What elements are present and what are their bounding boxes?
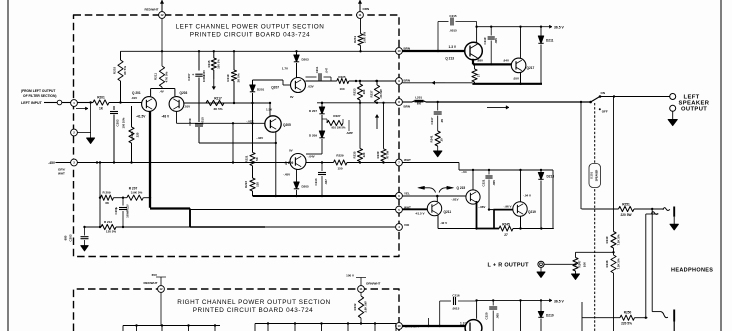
svg-text:C205: C205 bbox=[114, 207, 118, 214]
svg-text:R239: R239 bbox=[376, 151, 380, 158]
svg-text:.047: .047 bbox=[324, 179, 328, 185]
svg-text:LEFT INPUT: LEFT INPUT bbox=[21, 101, 43, 105]
svg-text:100 5%: 100 5% bbox=[217, 59, 221, 69]
svg-text:-.04 V: -.04 V bbox=[523, 194, 531, 198]
svg-text:-.04: -.04 bbox=[461, 170, 467, 174]
svg-text:.47 5W: .47 5W bbox=[385, 150, 389, 159]
svg-text:R201: R201 bbox=[97, 96, 105, 100]
svg-text:PRINTED CIRCUIT BOARD 043-7: PRINTED CIRCUIT BOARD 043-724 bbox=[193, 307, 314, 314]
svg-text:.005: .005 bbox=[494, 38, 498, 44]
svg-text:R227: R227 bbox=[333, 114, 341, 118]
svg-text:R225: R225 bbox=[338, 75, 346, 79]
svg-text:910 1W 5%: 910 1W 5% bbox=[332, 126, 347, 130]
svg-text:R247: R247 bbox=[578, 260, 582, 267]
svg-text:OFF: OFF bbox=[602, 110, 608, 114]
svg-text:10K: 10K bbox=[583, 261, 587, 267]
svg-text:R211: R211 bbox=[154, 73, 158, 80]
svg-text:R245: R245 bbox=[502, 222, 510, 226]
svg-text:R232: R232 bbox=[353, 303, 357, 310]
svg-text:3K 5%: 3K 5% bbox=[237, 73, 241, 82]
svg-text:27: 27 bbox=[477, 74, 481, 78]
svg-text:SPEAKER: SPEAKER bbox=[596, 169, 599, 181]
svg-text:R 209: R 209 bbox=[102, 191, 110, 195]
svg-text:-.04V: -.04V bbox=[308, 155, 315, 159]
svg-text:HEADPHONES: HEADPHONES bbox=[671, 267, 713, 273]
svg-text:C203: C203 bbox=[116, 119, 120, 126]
svg-text:R237: R237 bbox=[369, 90, 373, 97]
svg-text:D211: D211 bbox=[546, 39, 554, 43]
svg-text:-42 V: -42 V bbox=[440, 221, 447, 225]
svg-text:LEFT CHANNEL POWER OUTPUT: LEFT CHANNEL POWER OUTPUT SECTION bbox=[176, 24, 325, 31]
svg-text:220: 220 bbox=[136, 132, 140, 137]
svg-text:.01V: .01V bbox=[131, 96, 137, 100]
svg-text:.68V: .68V bbox=[477, 59, 483, 63]
svg-text:ORN: ORN bbox=[363, 7, 370, 11]
svg-text:C213: C213 bbox=[314, 178, 318, 185]
svg-text:.03V: .03V bbox=[308, 85, 314, 89]
svg-text:.05: .05 bbox=[440, 119, 444, 123]
svg-text:C209: C209 bbox=[188, 118, 192, 126]
svg-text:D 207: D 207 bbox=[309, 109, 317, 113]
svg-text:R251: R251 bbox=[622, 202, 630, 206]
svg-text:WHT: WHT bbox=[58, 172, 65, 176]
svg-text:-.45V: -.45V bbox=[283, 173, 290, 177]
svg-text:C216: C216 bbox=[452, 293, 460, 297]
svg-text:3K 5%: 3K 5% bbox=[123, 66, 127, 75]
svg-text:220 5W: 220 5W bbox=[621, 213, 632, 217]
svg-text:D205: D205 bbox=[302, 185, 310, 189]
svg-text:R217: R217 bbox=[214, 97, 222, 101]
svg-text:7.5K 5%: 7.5K 5% bbox=[617, 258, 621, 270]
svg-text:Q207: Q207 bbox=[271, 86, 279, 90]
svg-text:120 5%: 120 5% bbox=[106, 230, 117, 234]
svg-text:-.42V: -.42V bbox=[256, 136, 263, 140]
svg-text:D203: D203 bbox=[302, 58, 310, 62]
svg-text:1.7V: 1.7V bbox=[282, 67, 288, 71]
svg-text:R 213: R 213 bbox=[104, 220, 112, 224]
svg-text:36.5 V: 36.5 V bbox=[554, 299, 565, 303]
svg-text:RIGHT CHANNEL POWER OUTPUT: RIGHT CHANNEL POWER OUTPUT SECTION bbox=[177, 299, 331, 306]
svg-text:220: 220 bbox=[362, 152, 366, 157]
svg-text:AMP: AMP bbox=[346, 131, 353, 135]
svg-text:S 201: S 201 bbox=[590, 172, 594, 179]
svg-text:11: 11 bbox=[360, 287, 363, 291]
svg-text:R233: R233 bbox=[352, 88, 356, 95]
svg-text:(FROM LEFT OUTPUT: (FROM LEFT OUTPUT bbox=[21, 89, 55, 93]
svg-text:.005: .005 bbox=[492, 180, 496, 186]
svg-text:D201: D201 bbox=[257, 88, 265, 92]
svg-text:OUTPUT: OUTPUT bbox=[681, 107, 707, 113]
svg-text:-48 V: -48 V bbox=[162, 115, 170, 119]
svg-text:R221: R221 bbox=[245, 155, 249, 162]
svg-text:.05V: .05V bbox=[513, 77, 519, 81]
svg-text:.0015: .0015 bbox=[452, 306, 460, 310]
svg-text:.01V: .01V bbox=[184, 105, 190, 109]
svg-text:R205: R205 bbox=[130, 131, 134, 138]
svg-text:R249: R249 bbox=[605, 236, 609, 243]
svg-text:PRINTED CIRCUIT BOARD 043-7: PRINTED CIRCUIT BOARD 043-724 bbox=[190, 32, 311, 39]
svg-text:BRN: BRN bbox=[404, 78, 411, 82]
svg-text:R250: R250 bbox=[624, 311, 632, 315]
svg-text:100: 100 bbox=[339, 87, 344, 91]
svg-text:L201: L201 bbox=[415, 96, 422, 100]
svg-text:R241: R241 bbox=[430, 135, 434, 142]
svg-text:BRN: BRN bbox=[404, 105, 411, 109]
svg-text:100MF/12V: 100MF/12V bbox=[126, 204, 130, 218]
svg-text:R223: R223 bbox=[244, 181, 248, 188]
svg-text:OF FILTER SECTION): OF FILTER SECTION) bbox=[23, 94, 56, 98]
svg-text:680: 680 bbox=[64, 235, 68, 240]
svg-text:10: 10 bbox=[440, 138, 444, 142]
svg-text:100MF/3V: 100MF/3V bbox=[202, 70, 206, 82]
svg-text:C217: C217 bbox=[430, 117, 434, 124]
svg-text:1K: 1K bbox=[99, 107, 104, 111]
svg-text:150: 150 bbox=[337, 167, 342, 171]
svg-text:100 10%: 100 10% bbox=[122, 117, 126, 128]
svg-text:Q211: Q211 bbox=[444, 210, 452, 214]
svg-text:800: 800 bbox=[417, 103, 422, 106]
svg-text:180: 180 bbox=[362, 89, 366, 94]
svg-text:10: 10 bbox=[397, 324, 401, 328]
svg-text:36.5 V: 36.5 V bbox=[554, 26, 565, 30]
svg-text:ORN/WHT: ORN/WHT bbox=[366, 282, 380, 286]
svg-text:Q 215: Q 215 bbox=[457, 186, 466, 190]
svg-text:-.36V: -.36V bbox=[478, 205, 485, 209]
svg-text:.64V: .64V bbox=[503, 59, 509, 63]
svg-text:-45V: -45V bbox=[48, 161, 56, 165]
svg-text:-41.5 V: -41.5 V bbox=[415, 211, 425, 215]
svg-text:3.6K 5W: 3.6K 5W bbox=[362, 32, 366, 44]
svg-text:0V: 0V bbox=[289, 149, 293, 153]
svg-text:-.96 V: -.96 V bbox=[503, 205, 511, 209]
svg-text:65V: 65V bbox=[152, 273, 157, 277]
svg-text:27: 27 bbox=[504, 233, 508, 237]
svg-text:C219: C219 bbox=[483, 37, 487, 44]
svg-text:.005: .005 bbox=[496, 313, 500, 319]
svg-text:+: + bbox=[192, 73, 194, 77]
svg-text:100 V: 100 V bbox=[346, 274, 354, 278]
svg-text:C211: C211 bbox=[315, 66, 319, 73]
svg-text:.4V: .4V bbox=[159, 90, 164, 94]
svg-text:68: 68 bbox=[105, 201, 109, 205]
svg-text:1.5V: 1.5V bbox=[266, 108, 272, 112]
svg-text:12: 12 bbox=[160, 13, 164, 17]
svg-text:Q205: Q205 bbox=[283, 123, 291, 127]
svg-text:R203: R203 bbox=[113, 67, 117, 75]
svg-text:C207: C207 bbox=[187, 73, 191, 81]
svg-text:Q 209: Q 209 bbox=[285, 161, 294, 165]
svg-text:Q203: Q203 bbox=[180, 91, 188, 95]
svg-text:VIO: VIO bbox=[404, 223, 410, 227]
svg-text:12: 12 bbox=[159, 287, 163, 291]
svg-text:R235: R235 bbox=[352, 151, 356, 158]
svg-text:-41.5V: -41.5V bbox=[136, 115, 146, 119]
svg-text:.047: .047 bbox=[325, 67, 329, 73]
svg-text:-.81V: -.81V bbox=[451, 198, 458, 202]
svg-text:D 209: D 209 bbox=[309, 134, 317, 138]
svg-text:C220: C220 bbox=[485, 312, 489, 319]
svg-text:R231: R231 bbox=[353, 36, 357, 43]
svg-text:SPEAKER: SPEAKER bbox=[679, 100, 710, 106]
svg-text:7.5K 5%: 7.5K 5% bbox=[617, 234, 621, 246]
svg-text:3.6K 5W: 3.6K 5W bbox=[364, 301, 368, 313]
svg-text:Q219: Q219 bbox=[528, 210, 536, 214]
svg-text:1.3 V: 1.3 V bbox=[449, 45, 457, 49]
svg-text:YEL: YEL bbox=[404, 192, 410, 196]
svg-text:R248: R248 bbox=[605, 260, 609, 267]
svg-text:RED/WHT: RED/WHT bbox=[144, 281, 158, 285]
svg-text:0V: 0V bbox=[290, 95, 294, 99]
svg-text:LEFT: LEFT bbox=[684, 94, 700, 100]
svg-text:11: 11 bbox=[359, 13, 362, 17]
svg-text:220 5%: 220 5% bbox=[621, 322, 632, 326]
svg-text:C221: C221 bbox=[482, 179, 486, 186]
svg-text:WHT: WHT bbox=[404, 158, 411, 162]
svg-text:L + R OUTPUT: L + R OUTPUT bbox=[488, 263, 530, 269]
svg-text:Q217: Q217 bbox=[527, 66, 535, 70]
svg-text:Q 213: Q 213 bbox=[445, 57, 454, 61]
svg-text:R229: R229 bbox=[336, 154, 344, 158]
svg-text:.33 5W: .33 5W bbox=[379, 89, 383, 98]
svg-text:R219: R219 bbox=[226, 74, 230, 82]
svg-text:Q 201: Q 201 bbox=[132, 91, 141, 95]
svg-text:RED/WHT: RED/WHT bbox=[145, 7, 159, 11]
svg-text:D210: D210 bbox=[546, 314, 554, 318]
svg-text:3K 5%: 3K 5% bbox=[213, 107, 222, 111]
svg-text:10: 10 bbox=[397, 49, 401, 53]
svg-text:R215: R215 bbox=[207, 60, 211, 67]
svg-text:.0015: .0015 bbox=[449, 29, 457, 33]
svg-text:ON: ON bbox=[601, 91, 606, 95]
svg-text:C215: C215 bbox=[449, 14, 457, 18]
svg-text:3.9K 5%: 3.9K 5% bbox=[131, 191, 143, 195]
svg-text:47K 5%: 47K 5% bbox=[165, 71, 169, 82]
svg-text:C203: C203 bbox=[69, 234, 73, 241]
svg-text:120: 120 bbox=[256, 182, 260, 187]
